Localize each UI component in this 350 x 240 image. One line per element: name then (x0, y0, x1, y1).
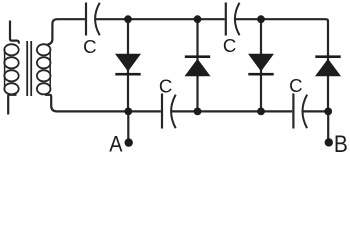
diode D1 body (cathode down) (115, 54, 141, 76)
capacitor C2 curved plate (235, 3, 240, 35)
wire: middle rail C3 to C4 (171, 110, 292, 112)
capacitor C4 curved plate (303, 95, 308, 129)
capacitor C3 curved plate (171, 95, 176, 129)
junction dot top rail at D1 (124, 15, 132, 23)
wire: top rail C1 to C2 (95, 18, 224, 20)
terminal dot node A (125, 138, 133, 146)
wire: node B branch (327, 111, 329, 139)
svg-text:C: C (289, 75, 302, 96)
junction dot top rail at D2 (194, 15, 202, 23)
wire: secondary bottom lead and middle rail to C3 (45, 95, 161, 112)
diode D3 body (cathode down) (248, 54, 274, 76)
junction dot top rail at D3 (257, 15, 265, 23)
svg-text:C: C (83, 36, 96, 57)
capacitor C1 straight plate (85, 3, 87, 36)
wire: secondary top lead and top rail to C1 (48, 19, 85, 44)
capacitor C3 straight plate (161, 94, 163, 129)
transformer core (27, 41, 31, 96)
wire: middle rail C4 to D4 column (303, 110, 328, 112)
transformer T1 secondary winding (37, 44, 51, 94)
diode D2 vertical wire (196, 19, 198, 111)
capacitor C1 curved plate (95, 3, 100, 35)
wire: top rail C2 to top-right corner, down to D4 (235, 19, 328, 56)
diode D4 body (cathode up) (315, 55, 341, 76)
svg-text:C: C (159, 75, 172, 96)
junction dot middle rail at D1 (124, 108, 132, 116)
transformer T1 primary winding (4, 44, 18, 94)
wire: primary top terminal (10, 21, 19, 44)
diode D4 vertical wire (327, 54, 329, 111)
diode D3 vertical wire (260, 19, 262, 111)
svg-text:A: A (109, 133, 122, 157)
wire: node A branch (127, 111, 129, 139)
diode D2 body (cathode up) (185, 55, 211, 76)
capacitor C2 straight plate (225, 3, 227, 36)
junction dot middle rail at D4 (324, 108, 332, 116)
svg-text:B: B (334, 130, 348, 157)
terminal dot node B (325, 138, 333, 146)
diode D1 vertical wire (127, 19, 129, 111)
capacitor C4 straight plate (292, 94, 294, 129)
wire: primary bottom terminal (8, 95, 16, 115)
junction dot middle rail at D3 (257, 108, 265, 116)
junction dot middle rail at D2 (194, 108, 202, 116)
svg-text:C: C (223, 35, 236, 56)
